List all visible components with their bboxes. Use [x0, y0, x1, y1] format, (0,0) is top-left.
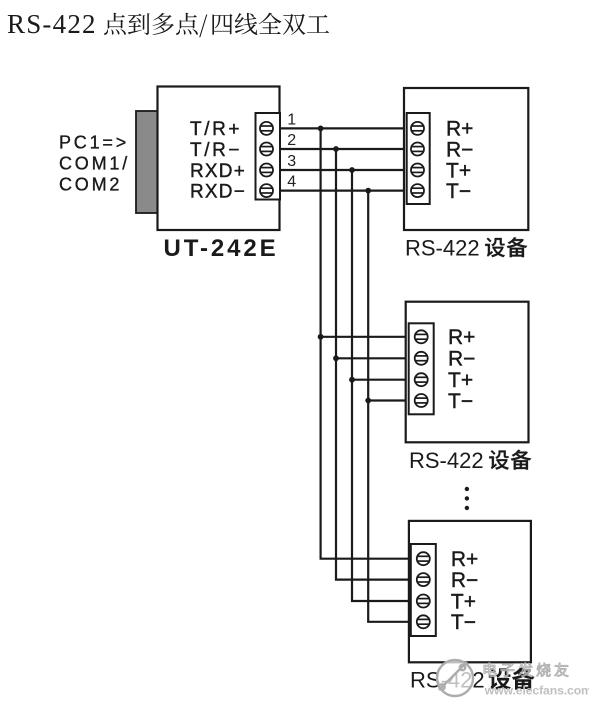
svg-text:R+: R+ [451, 548, 478, 571]
svg-text:1: 1 [287, 111, 296, 128]
junction dot wire 1 top [318, 125, 324, 131]
device 3 label 设备 [489, 668, 535, 690]
svg-text:T+: T+ [446, 159, 471, 182]
svg-text:R−: R− [448, 348, 475, 371]
device 1 label 设备 [485, 237, 527, 257]
svg-text:T/R+: T/R+ [190, 119, 242, 140]
svg-text:4: 4 [287, 174, 296, 191]
svg-text:COM2: COM2 [59, 174, 122, 194]
svg-text:RXD−: RXD− [190, 181, 246, 202]
svg-text:R−: R− [451, 569, 478, 592]
junction dot wire 3 device2 [349, 377, 355, 383]
device 2 label 设备 [489, 450, 531, 470]
bus wire 1 vertical drop [321, 128, 417, 558]
svg-text:RS-422: RS-422 [409, 448, 484, 473]
junction dot wire 4 top [365, 188, 371, 194]
label PC1=>COM1/COM2 [59, 132, 130, 194]
svg-text:RS-422: RS-422 [7, 9, 97, 39]
device 2 screw terminal R+ [415, 330, 428, 343]
RS-422 device 2 box [406, 302, 529, 443]
wire tap 2 to device2 [336, 357, 416, 359]
svg-text:T+: T+ [448, 369, 473, 392]
device 3 screw terminal R+ [417, 552, 430, 565]
junction dot wire 1 device2 [318, 334, 324, 340]
device 1 screw terminal R− [411, 143, 424, 156]
junction dot wire 3 top [349, 167, 355, 173]
svg-text:T−: T− [446, 180, 471, 203]
wire 3: converter pin 3 to device1 [279, 169, 412, 171]
junction dot wire 2 device2 [333, 355, 339, 361]
device 1 screw terminal T− [411, 184, 424, 197]
device 1 screw terminal R+ [411, 122, 424, 135]
svg-text:RXD+: RXD+ [190, 161, 246, 182]
device 3 terminal block [411, 544, 436, 636]
watermark logo circle [437, 660, 473, 696]
bus wire 2 vertical drop [336, 149, 417, 580]
wire 4: converter pin 4 to device1 [279, 190, 412, 192]
svg-text:R+: R+ [446, 118, 473, 141]
svg-text:T/R−: T/R− [190, 140, 242, 161]
svg-text:T−: T− [448, 390, 473, 413]
converter screw terminal T/R− [260, 143, 273, 156]
svg-text:www.elecfans.com: www.elecfans.com [484, 684, 589, 698]
converter UT-242E box [158, 87, 280, 231]
svg-text:RS-422: RS-422 [405, 235, 480, 260]
device 2 screw terminal T− [415, 394, 428, 407]
RS-422 device 1 box [404, 88, 528, 230]
device 2 screw terminal R− [415, 352, 428, 365]
svg-text:3: 3 [287, 153, 296, 170]
svg-text:T+: T+ [451, 590, 476, 613]
wire tap 1 to device2 [321, 336, 416, 338]
converter screw terminal RXD+ [260, 164, 273, 177]
svg-text:PC1=>: PC1=> [59, 132, 129, 152]
converter screw terminal T/R+ [260, 122, 273, 135]
junction dot wire 4 device2 [365, 398, 371, 404]
svg-text:T−: T− [451, 611, 476, 634]
device 3 screw terminal T− [417, 615, 430, 628]
ellipsis dots (more devices) [465, 487, 469, 491]
bus wire 4 vertical drop [368, 191, 417, 622]
svg-text:UT-242E: UT-242E [163, 235, 278, 262]
wire tap 4 to device2 [368, 399, 416, 401]
device 2 screw terminal T+ [415, 373, 428, 386]
RS-422 device 3 box [409, 521, 531, 662]
device 3 screw terminal T+ [417, 595, 430, 608]
wire 1: converter pin 1 to device1 [279, 127, 412, 129]
device 1 terminal block [407, 113, 430, 204]
wire 2: converter pin 2 to device1 [279, 148, 412, 150]
watermark 电子发烧友 [484, 663, 569, 677]
title text 点到多点/四线全双工 [104, 13, 329, 38]
converter terminal block [256, 113, 281, 200]
DB9 connector of UT-242E (gray) [136, 111, 158, 213]
junction dot wire 2 top [333, 146, 339, 152]
svg-text:R−: R− [446, 138, 473, 161]
wire tap 3 to device2 [352, 379, 416, 381]
svg-text:2: 2 [287, 132, 296, 149]
svg-text:R+: R+ [448, 326, 475, 349]
device 1 screw terminal T+ [411, 164, 424, 177]
device 2 terminal block [409, 323, 434, 414]
device 3 screw terminal R− [417, 573, 430, 586]
svg-text:COM1/: COM1/ [59, 153, 130, 173]
converter screw terminal RXD− [260, 184, 273, 197]
bus wire 3 vertical drop [352, 170, 417, 601]
